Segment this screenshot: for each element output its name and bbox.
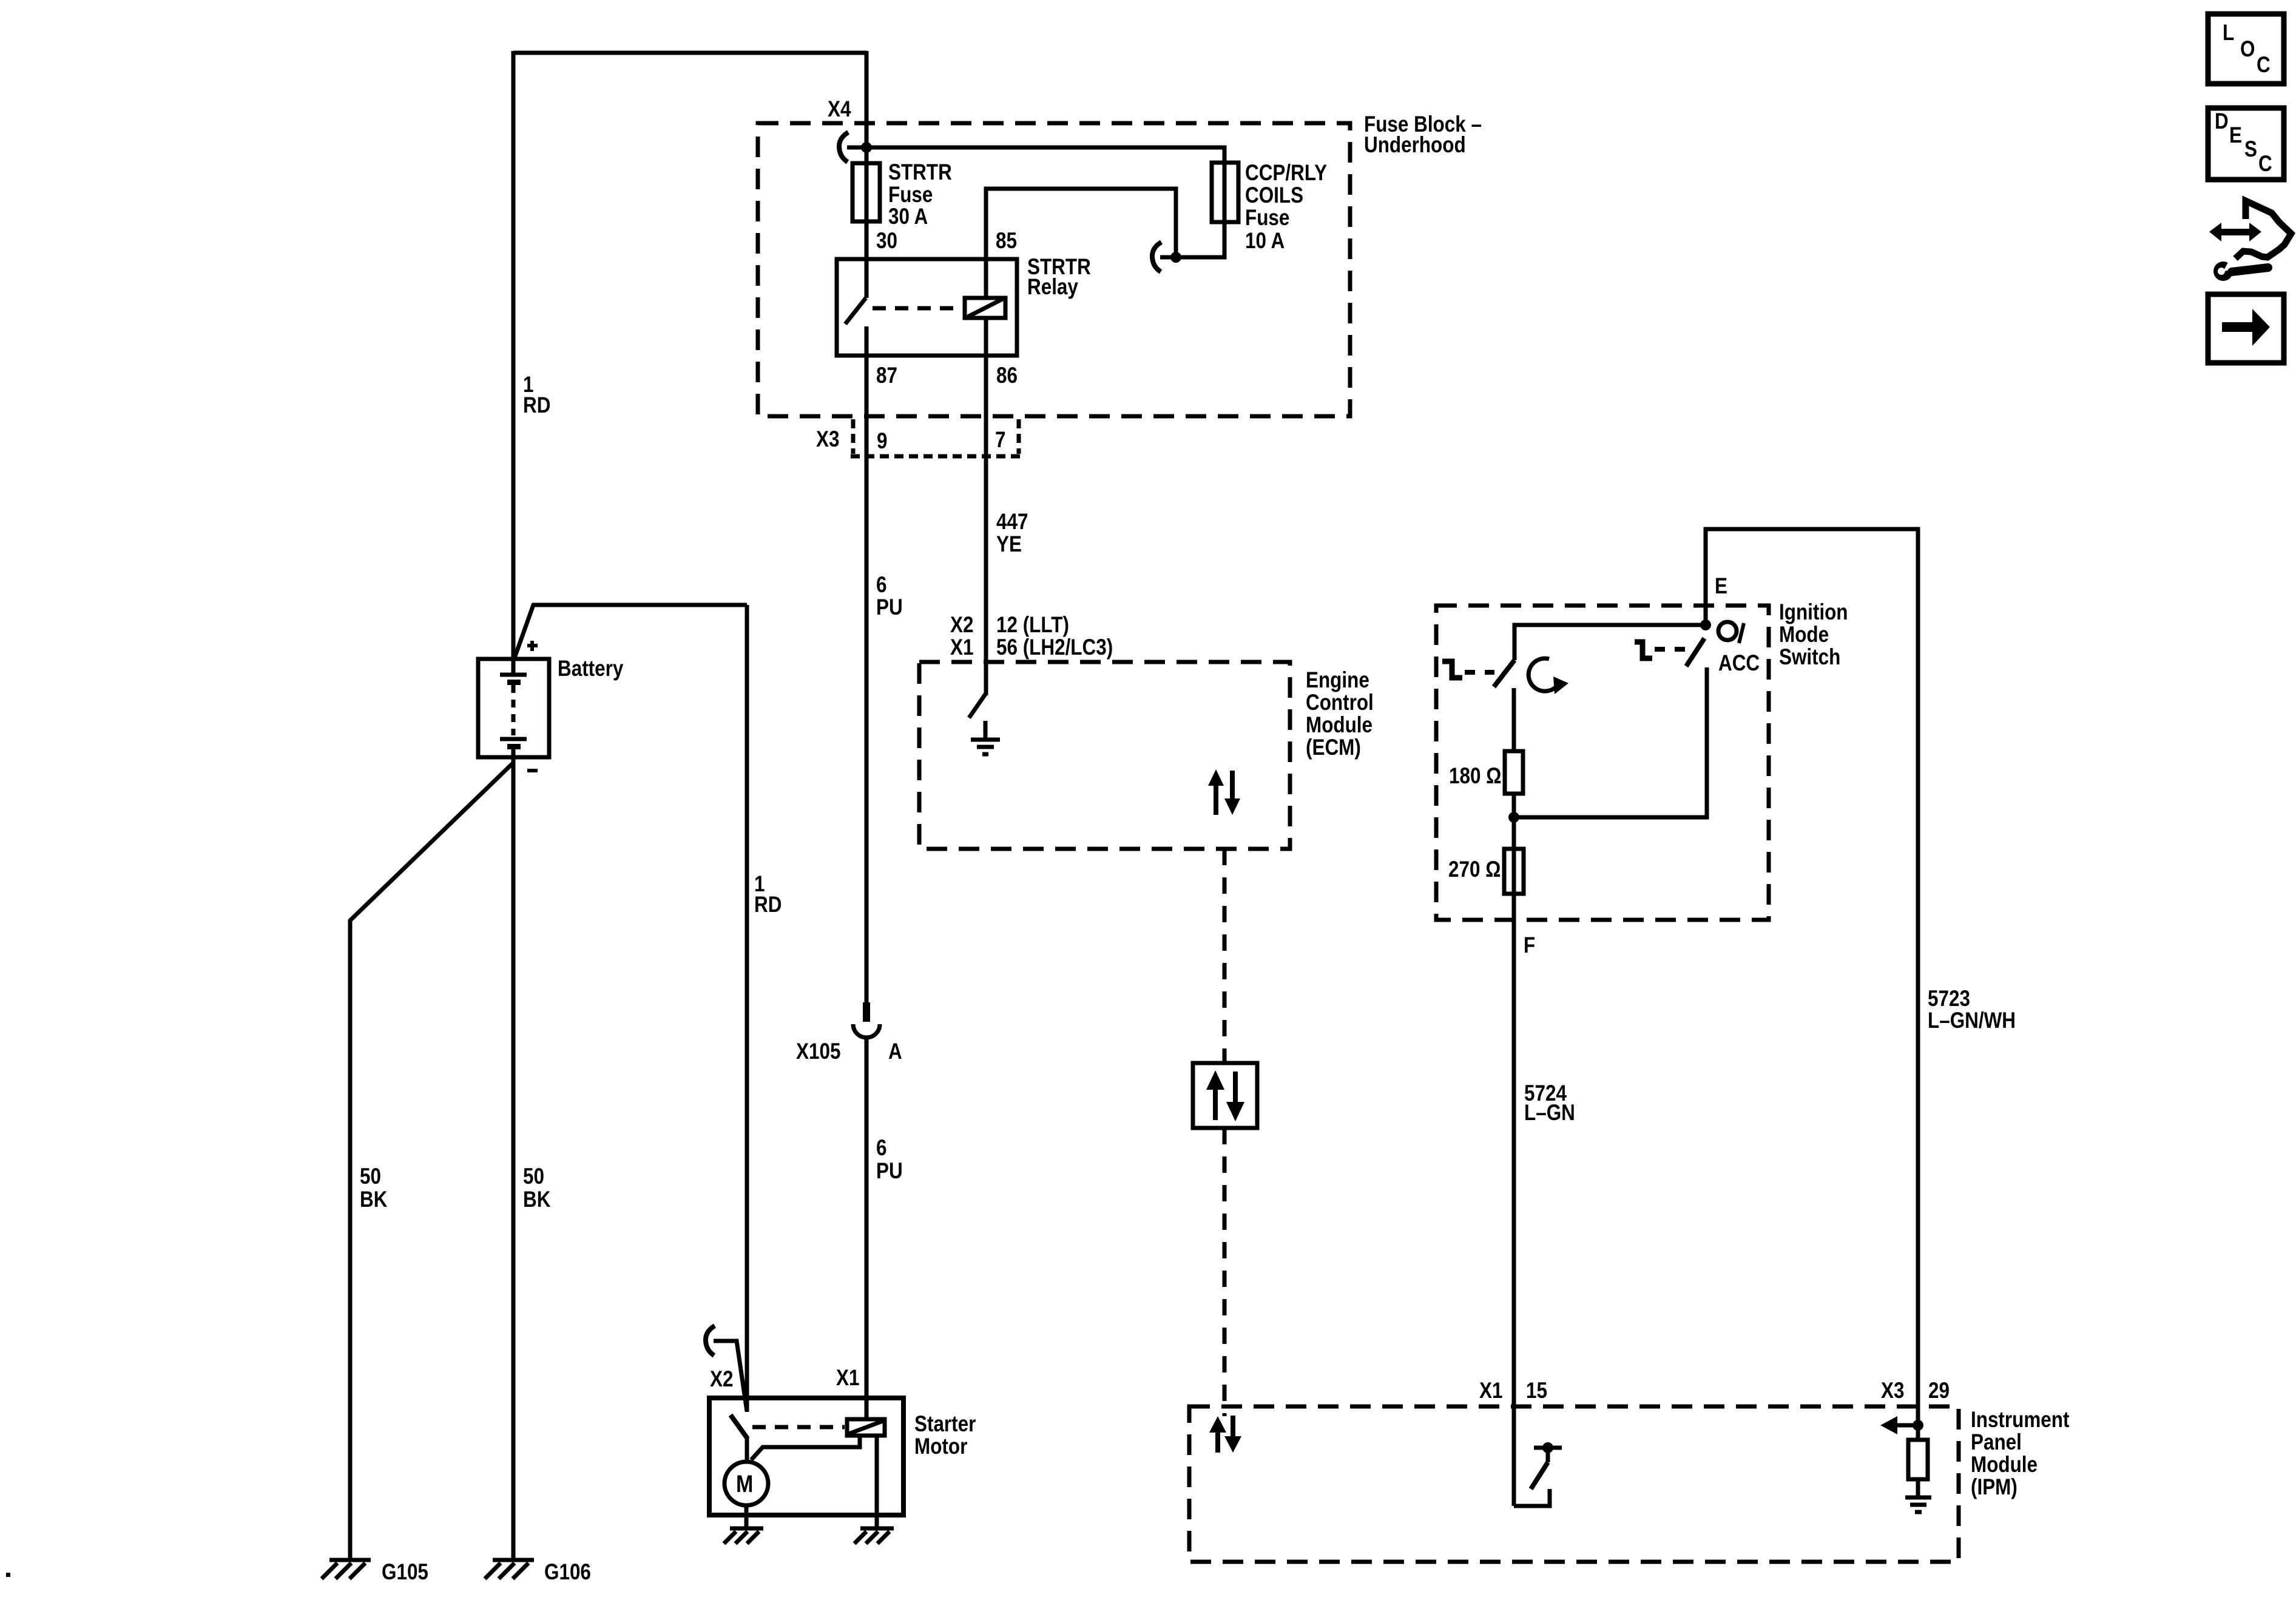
wire 270 ohm to F pin bbox=[1512, 817, 1516, 1506]
starter solenoid coil bbox=[847, 1419, 885, 1436]
svg-text:YE: YE bbox=[996, 532, 1022, 557]
wire solenoid to ground bbox=[875, 1436, 879, 1528]
battery + terminal mark bbox=[527, 641, 538, 651]
serial data arrows inside IPM bbox=[1209, 1416, 1241, 1453]
svg-text:L–GN/WH: L–GN/WH bbox=[1928, 1008, 2016, 1033]
svg-text:87: 87 bbox=[876, 363, 897, 388]
battery - terminal mark bbox=[527, 769, 538, 772]
wire relay 87 down through X3 bbox=[865, 356, 869, 1004]
svg-text:X4: X4 bbox=[828, 97, 851, 122]
wire top rail X4 to CCP fuse bbox=[866, 147, 1224, 257]
node X4 junction dot bbox=[861, 142, 872, 153]
battery B1 bbox=[478, 659, 549, 757]
svg-text:29: 29 bbox=[1928, 1379, 1950, 1403]
resistor inside IPM bbox=[1908, 1440, 1928, 1479]
ignition ACC mechanical link dashes bbox=[1655, 647, 1687, 652]
wire battery positive jog to starter feed rail bbox=[514, 605, 747, 660]
svg-text:6: 6 bbox=[876, 573, 886, 598]
svg-text:56 (LH2/LC3): 56 (LH2/LC3) bbox=[996, 635, 1113, 660]
wire solenoid coil to motor bbox=[751, 1436, 860, 1460]
svg-text:G106: G106 bbox=[544, 1560, 591, 1585]
wire 180 ohm to junction bbox=[1512, 794, 1516, 817]
svg-text:447: 447 bbox=[996, 510, 1028, 535]
connector clip below CCP fuse bbox=[1152, 242, 1161, 272]
svg-text:15: 15 bbox=[1526, 1379, 1547, 1403]
svg-text:Switch: Switch bbox=[1779, 645, 1840, 670]
connector clip at starter X2 bbox=[706, 1326, 747, 1411]
wire 1 RD down to starter X2 bbox=[745, 605, 749, 1412]
resistor 180 ohm bbox=[1505, 751, 1523, 794]
svg-text:Module: Module bbox=[1971, 1453, 2038, 1477]
svg-text:270 Ω: 270 Ω bbox=[1448, 857, 1501, 882]
svg-text:RD: RD bbox=[523, 393, 550, 418]
svg-text:G105: G105 bbox=[382, 1560, 428, 1585]
page period mark bottom left bbox=[6, 1573, 10, 1577]
starter solenoid mechanical link dashes bbox=[752, 1425, 845, 1430]
connector clip at X4 bbox=[839, 132, 866, 162]
ground under solenoid bbox=[854, 1528, 894, 1544]
svg-text:12 (LLT): 12 (LLT) bbox=[996, 613, 1069, 638]
svg-text:50: 50 bbox=[523, 1164, 544, 1189]
svg-text:6: 6 bbox=[876, 1136, 886, 1161]
switch inside IPM on 5724 input bbox=[1514, 1442, 1562, 1506]
wire resistor to IPM ground bbox=[1916, 1479, 1920, 1497]
serial data gateway box with arrows bbox=[1193, 1063, 1257, 1128]
ground G106 bbox=[485, 1560, 534, 1579]
svg-text:Engine: Engine bbox=[1306, 668, 1369, 693]
svg-text:86: 86 bbox=[996, 363, 1018, 388]
svg-text:X1: X1 bbox=[1479, 1379, 1502, 1403]
svg-text:Instrument: Instrument bbox=[1971, 1408, 2070, 1433]
svg-text:STRTR: STRTR bbox=[888, 160, 952, 185]
wire top rail from battery feed to X4 bbox=[513, 51, 866, 55]
svg-text:9: 9 bbox=[877, 429, 887, 454]
ignition RUN mechanical link dashes bbox=[1465, 670, 1494, 675]
ground inside IPM bbox=[1905, 1497, 1931, 1512]
svg-text:BK: BK bbox=[360, 1187, 388, 1212]
svg-text:M: M bbox=[736, 1470, 753, 1497]
node junction dot CCP to relay 85 bbox=[1170, 252, 1181, 263]
serial data arrows inside ECM bbox=[1208, 769, 1240, 815]
ground under motor bbox=[724, 1528, 763, 1544]
svg-text:S: S bbox=[2244, 137, 2257, 162]
svg-text:C: C bbox=[2257, 53, 2271, 78]
svg-text:Underhood: Underhood bbox=[1364, 133, 1466, 158]
ignition ACC switch bracket bbox=[1635, 642, 1652, 658]
svg-text:D: D bbox=[2215, 109, 2229, 134]
wire left vertical battery feed bbox=[512, 51, 516, 660]
svg-text:Motor: Motor bbox=[914, 1434, 967, 1459]
wire relay 86 down through X3 to ECM bbox=[984, 356, 988, 695]
svg-text:85: 85 bbox=[996, 229, 1017, 254]
wire motor to ground bbox=[745, 1505, 749, 1528]
svg-text:ACC: ACC bbox=[1718, 651, 1760, 676]
svg-text:F: F bbox=[1524, 933, 1535, 958]
node junction dot 5723 inside IPM bbox=[1913, 1420, 1923, 1431]
svg-text:Fuse: Fuse bbox=[1245, 206, 1289, 231]
relay STRTR bbox=[837, 259, 1017, 356]
svg-text:Relay: Relay bbox=[1027, 275, 1078, 300]
node E junction dot bbox=[1700, 619, 1711, 630]
svg-text:30 A: 30 A bbox=[888, 204, 928, 229]
svg-text:X3: X3 bbox=[816, 427, 839, 452]
ignition RUN switch blade bbox=[1494, 660, 1514, 687]
icon next arrow box bbox=[2208, 294, 2284, 363]
svg-text:50: 50 bbox=[360, 1164, 381, 1189]
fuse CCP/RLY COILS 10 A bbox=[1212, 163, 1238, 222]
svg-text:COILS: COILS bbox=[1245, 183, 1303, 208]
svg-text:(ECM): (ECM) bbox=[1306, 735, 1361, 760]
svg-text:180 Ω: 180 Ω bbox=[1449, 764, 1501, 789]
wire X105 to starter X1 bbox=[865, 1038, 869, 1420]
svg-text:Panel: Panel bbox=[1971, 1430, 2022, 1455]
svg-text:Control: Control bbox=[1306, 690, 1374, 715]
svg-text:X1: X1 bbox=[950, 635, 973, 660]
arrow serial output inside IPM bbox=[1880, 1416, 1918, 1434]
connector X3 dashed box bbox=[851, 419, 1021, 456]
wire 5723 junction to resistor bbox=[1916, 1425, 1920, 1440]
ground G105 bbox=[322, 1560, 371, 1579]
wire battery negative branch to G105 bbox=[350, 763, 513, 1560]
motor M bbox=[724, 1462, 768, 1505]
svg-text:PU: PU bbox=[876, 595, 903, 620]
resistor 270 ohm bbox=[1504, 849, 1524, 894]
dashed box Ignition Mode Switch bbox=[1436, 606, 1769, 920]
svg-text:L: L bbox=[2223, 21, 2234, 46]
svg-text:Module: Module bbox=[1306, 713, 1373, 738]
starter solenoid switch blade bbox=[731, 1415, 748, 1439]
svg-text:7: 7 bbox=[995, 428, 1005, 453]
svg-text:X2: X2 bbox=[950, 613, 973, 638]
serial data dashed wire ECM to gateway bbox=[1223, 849, 1227, 1063]
icon service hand with arrow and wrench bbox=[2209, 201, 2291, 281]
svg-text:X2: X2 bbox=[710, 1367, 733, 1392]
node junction 180/270 dot bbox=[1508, 812, 1519, 823]
svg-text:BK: BK bbox=[523, 1187, 551, 1212]
wire E node to RUN contact bbox=[1514, 625, 1706, 660]
svg-text:X3: X3 bbox=[1881, 1379, 1904, 1403]
connector X105 on starter solenoid wire bbox=[853, 1002, 880, 1038]
svg-text:5723: 5723 bbox=[1928, 987, 1970, 1011]
svg-text:Fuse: Fuse bbox=[888, 183, 933, 208]
wire junction up and left to relay pin 85 bbox=[986, 189, 1176, 260]
ignition ACC switch blade bbox=[1686, 638, 1704, 666]
svg-text:C: C bbox=[2258, 152, 2272, 177]
svg-text:A: A bbox=[888, 1039, 902, 1064]
svg-text:E: E bbox=[2229, 123, 2242, 148]
wire battery negative to G106 bbox=[512, 757, 516, 1560]
ground inside ECM bbox=[971, 721, 1000, 754]
svg-text:X105: X105 bbox=[796, 1039, 840, 1064]
switch to ground inside ECM bbox=[969, 694, 985, 718]
wire switch blade to motor bbox=[745, 1437, 749, 1462]
svg-text:E: E bbox=[1715, 574, 1727, 599]
svg-text:L–GN: L–GN bbox=[1524, 1101, 1575, 1126]
wire RUN lower contact to 180 ohm bbox=[1512, 688, 1516, 751]
ignition RUN switch bracket bbox=[1442, 661, 1462, 678]
ignition O/ACC symbol bbox=[1718, 622, 1760, 676]
svg-text:CCP/RLY: CCP/RLY bbox=[1245, 161, 1327, 186]
svg-text:PU: PU bbox=[876, 1159, 903, 1184]
ignition rotate arrow bbox=[1528, 658, 1568, 694]
svg-text:Ignition: Ignition bbox=[1779, 600, 1848, 625]
fuse STRTR 30 A bbox=[853, 163, 880, 221]
wire junction to ACC lower contact bbox=[1514, 667, 1707, 817]
serial data dashed wire gateway to IPM bbox=[1223, 1128, 1227, 1416]
icon DESC box bbox=[2208, 108, 2284, 180]
svg-text:RD: RD bbox=[754, 893, 782, 917]
dashed box Engine Control Module (ECM) bbox=[919, 662, 1290, 849]
svg-text:X1: X1 bbox=[836, 1366, 859, 1391]
svg-text:Battery: Battery bbox=[558, 657, 623, 681]
svg-text:(IPM): (IPM) bbox=[1971, 1475, 2017, 1500]
svg-text:10 A: 10 A bbox=[1245, 229, 1285, 254]
svg-text:Starter: Starter bbox=[914, 1412, 976, 1437]
svg-text:Mode: Mode bbox=[1779, 623, 1829, 647]
icon LOC box bbox=[2208, 14, 2284, 84]
dashed box Fuse Block - Underhood bbox=[758, 123, 1350, 416]
dashed box Instrument Panel Module (IPM) bbox=[1189, 1406, 1959, 1562]
wire ignition feed top rail E to 5723 bbox=[1706, 529, 1918, 1426]
svg-text:O: O bbox=[2240, 37, 2255, 62]
svg-text:30: 30 bbox=[876, 229, 897, 254]
starter motor box bbox=[709, 1398, 903, 1515]
wire X4 drop into fuse block bbox=[865, 51, 869, 260]
